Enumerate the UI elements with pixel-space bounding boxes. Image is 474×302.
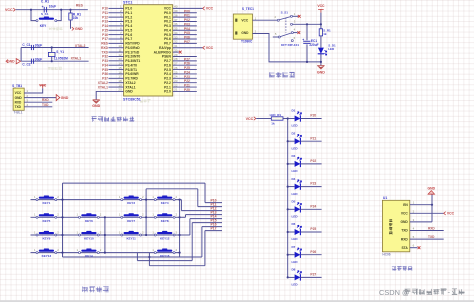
node junction EC1 bottom: [306, 61, 308, 63]
wire LED D6 to net: [300, 231, 321, 233]
pushbutton KEY9: [39, 232, 54, 234]
svg-text:D3: D3: [292, 154, 296, 158]
svg-text:TXD: TXD: [428, 235, 435, 239]
resistor LED_R1 1k: [271, 117, 283, 120]
node junction reset-cap right: [60, 9, 62, 11]
svg-text:5: 5: [275, 32, 277, 36]
svg-text:6: 6: [294, 36, 296, 40]
node junction EC1 top: [306, 23, 308, 25]
svg-text:10k: 10k: [73, 16, 79, 20]
svg-text:2: 2: [255, 29, 257, 33]
svg-text:KEY3: KEY3: [127, 201, 135, 205]
svg-text:2: 2: [57, 230, 59, 234]
wire to VCC port: [173, 7, 203, 9]
label matrix keyboard: [82, 286, 109, 292]
op IC STC1 STC89C51 body: [124, 5, 173, 96]
node junction LED bus row 8: [287, 276, 289, 278]
node junction EN/GND: [431, 204, 433, 206]
node junction LED bus row 1: [287, 117, 289, 119]
svg-text:2: 2: [100, 248, 102, 252]
wire S_TB1 GND: [24, 97, 56, 99]
wire keyboard stack row 1: [205, 202, 222, 204]
wire ALE stub: [173, 51, 179, 53]
svg-text:LED: LED: [328, 47, 335, 51]
svg-text:+: +: [42, 5, 44, 9]
svg-text:C_C1: C_C1: [22, 43, 30, 47]
svg-text:S_TB1: S_TB1: [12, 84, 22, 88]
node junction LED bus row 3: [287, 163, 289, 165]
node junction RES/resistor: [69, 9, 71, 11]
svg-text:GND: GND: [400, 220, 408, 224]
svg-text:P22: P22: [310, 159, 316, 163]
svg-text:KE14: KE14: [85, 254, 93, 258]
wire resistor to LED S_D1: [320, 36, 322, 48]
svg-text:1: 1: [119, 195, 121, 199]
wire LED D3 to net: [300, 163, 321, 165]
svg-text:STC1: STC1: [123, 0, 132, 4]
svg-text:1k: 1k: [323, 32, 327, 36]
node junction bottom bus: [320, 61, 322, 63]
wire switch pin5 stub: [273, 36, 278, 38]
wire pin 33: [173, 38, 197, 40]
svg-text:KEY: KEY: [40, 24, 47, 28]
svg-text:XTAL2: XTAL2: [75, 44, 86, 48]
pushbutton KEY16: [157, 250, 172, 252]
svg-text:S_S1: S_S1: [281, 10, 289, 14]
svg-text:KEY8: KEY8: [161, 219, 169, 223]
svg-text:KEY13: KEY13: [42, 254, 52, 258]
svg-text:LED: LED: [292, 146, 299, 150]
wire switch pin4 stub: [293, 32, 297, 34]
svg-text:GND: GND: [61, 96, 69, 100]
svg-text:KEY6: KEY6: [85, 219, 93, 223]
wire VCC to LED_R1: [256, 118, 271, 120]
wire S_TB1 VCC: [24, 88, 43, 93]
wire pin 25: [173, 73, 197, 75]
pushbutton KEY8: [157, 214, 172, 216]
svg-text:1: 1: [77, 248, 79, 252]
wire pin 34: [173, 34, 197, 36]
power port GND (reset): [72, 27, 74, 30]
wire keyboard bottom route 1: [63, 256, 202, 258]
switch S_S1 link (dashed): [285, 18, 287, 33]
wire keyboard column 1 vertical: [62, 183, 64, 257]
pushbutton KEY6: [81, 214, 96, 216]
svg-text:2: 2: [142, 230, 144, 234]
label power circuit: [269, 72, 294, 78]
wire keyboard row 4: [31, 252, 180, 254]
node junction LED bus row 6: [287, 231, 289, 233]
svg-text:P27: P27: [310, 273, 316, 277]
node junction LED bus row 5: [287, 208, 289, 210]
wire pin 21: [173, 90, 197, 92]
svg-text:VCC: VCC: [447, 212, 455, 216]
label bluetooth module: [392, 266, 412, 271]
wire keyboard top route 1 (col1): [63, 182, 206, 184]
wire S_TEC1 pin1 to switch: [253, 19, 278, 21]
svg-text:1: 1: [77, 230, 79, 234]
svg-text:HC06: HC06: [382, 253, 390, 257]
switch S_S1 pin1 contact: [291, 15, 293, 17]
svg-text:VCC: VCC: [206, 46, 214, 50]
svg-text:P26: P26: [310, 250, 316, 254]
switch S_S1 pole1 common contact: [277, 19, 279, 21]
svg-text:VCC: VCC: [246, 117, 254, 121]
wire to VCC port: [173, 47, 203, 49]
pushbutton KEY13: [39, 250, 54, 252]
wire pin 37: [173, 21, 197, 23]
power port GND (S_TB1): [56, 95, 60, 101]
wire crystal left bus: [20, 48, 22, 62]
svg-text:1: 1: [152, 213, 154, 217]
svg-text:VCC: VCC: [401, 212, 409, 216]
svg-text:10uF: 10uF: [49, 4, 56, 8]
svg-text:2: 2: [176, 195, 178, 199]
svg-text:3: 3: [294, 20, 296, 24]
svg-text:VCC: VCC: [241, 18, 248, 22]
svg-text:LED: LED: [292, 215, 299, 219]
svg-text:1: 1: [34, 213, 36, 217]
wire pin 24: [173, 77, 197, 79]
wire keyboard stack row 6: [192, 222, 222, 224]
svg-text:1: 1: [152, 195, 154, 199]
svg-text:LED: LED: [292, 260, 299, 264]
wire switch pin1 stub: [293, 15, 299, 17]
resistor S_R1 1k: [319, 29, 322, 36]
wire keyboard row 1: [31, 199, 180, 201]
wire pin 28: [173, 60, 197, 62]
svg-text:P07: P07: [184, 40, 190, 44]
svg-text:C_R1: C_R1: [41, 0, 49, 4]
ground symbol (power circuit): [317, 66, 324, 69]
connector S_TEC1 body: [233, 14, 252, 39]
wire keyboard route row1: [180, 199, 182, 201]
svg-text:RXD: RXD: [401, 237, 409, 241]
pushbutton KEY5: [39, 214, 54, 216]
wire keyboard column 3 vertical: [145, 189, 147, 235]
node junction crystal top: [51, 46, 53, 48]
node junction LED bus row 4: [287, 186, 289, 188]
svg-text:2: 2: [413, 209, 415, 213]
pushbutton KEY12: [157, 232, 172, 234]
svg-text:KEY4: KEY4: [161, 201, 169, 205]
svg-text:TXD: TXD: [401, 229, 408, 233]
switch S_S1 pole2 blade: [280, 33, 291, 37]
wire reset button left: [31, 10, 37, 21]
pushbutton KEY1: [39, 197, 54, 199]
svg-text:XTAL1: XTAL1: [71, 57, 82, 61]
svg-text:P21: P21: [310, 136, 316, 140]
svg-text:30pF: 30pF: [35, 44, 42, 48]
svg-text:2: 2: [142, 195, 144, 199]
power port VCC (STC1): [203, 7, 205, 10]
svg-text:GND: GND: [428, 186, 436, 190]
svg-text:GND: GND: [241, 31, 249, 35]
svg-text:3: 3: [413, 218, 415, 222]
wire LED to GND: [320, 54, 322, 66]
svg-text:D7: D7: [292, 245, 296, 249]
svg-text:U1: U1: [383, 196, 387, 200]
wire pin 27: [173, 64, 197, 66]
node junction LED bus row 2: [287, 140, 289, 142]
wire U1 TXD: [410, 230, 444, 232]
node junction crystal bottom: [51, 60, 53, 62]
pushbutton KEY4: [157, 197, 172, 199]
svg-text:S_K1: S_K1: [41, 12, 49, 16]
pushbutton KEY7: [124, 214, 139, 216]
wire S_TB1 TXD: [24, 106, 52, 108]
svg-text:P25: P25: [310, 227, 316, 231]
wire LED D2 to net: [300, 140, 321, 142]
svg-text:RXD: RXD: [42, 98, 49, 102]
svg-text:1: 1: [294, 12, 296, 16]
svg-text:2: 2: [57, 195, 59, 199]
wire pin 39: [173, 12, 197, 14]
wire pin 26: [173, 69, 197, 71]
wire U1 GND: [410, 221, 432, 223]
wire keyboard route row2: [180, 216, 186, 218]
wire LED D8 to net: [300, 276, 321, 278]
svg-text:RXD: RXD: [428, 227, 435, 231]
wire LED anode bus: [287, 119, 289, 278]
svg-text:P20: P20: [184, 88, 190, 92]
svg-text:30pF: 30pF: [35, 57, 42, 61]
wire pin 23: [173, 82, 197, 84]
svg-text:P23: P23: [310, 182, 316, 186]
svg-text:T-BL1: T-BL1: [14, 111, 23, 115]
wire pin 38: [173, 16, 197, 18]
svg-text:2: 2: [57, 248, 59, 252]
svg-text:2: 2: [274, 15, 276, 19]
ground symbol (STC1): [93, 100, 100, 103]
node junction VCC bus: [320, 23, 322, 25]
wire R_R1 to GND: [70, 20, 72, 29]
svg-text:4: 4: [413, 227, 415, 231]
svg-text:2: 2: [100, 213, 102, 217]
wire LED D1 to net: [300, 118, 321, 120]
wire keyboard bottom route 2 (row4 drop A): [136, 253, 138, 261]
svg-text:1: 1: [34, 195, 36, 199]
switch S_S1 pin3 contact: [291, 23, 293, 25]
wire EC1 bottom: [306, 44, 308, 62]
wire keyboard stack row 4: [186, 214, 223, 216]
switch S_S1 pin4 contact: [291, 32, 293, 34]
no-connect X (ALE): [179, 51, 182, 54]
wire keyboard stack row 7: [202, 226, 222, 228]
switch S_S1 pin6 contact: [291, 40, 293, 42]
wire pin 35: [173, 29, 197, 31]
pushbutton KEY11: [124, 232, 139, 234]
wire keyboard stack row 8: [205, 230, 222, 232]
node junction reset-cap left: [30, 9, 32, 11]
power port VCC (U1): [444, 212, 446, 215]
svg-text:1: 1: [152, 248, 154, 252]
resistor R_R1 10k: [69, 13, 72, 20]
wire U1 VCC: [410, 212, 444, 214]
svg-text:VCC: VCC: [39, 84, 47, 88]
svg-text:LED: LED: [292, 237, 299, 241]
svg-text:T1090C: T1090C: [241, 40, 253, 44]
svg-text:-: -: [448, 287, 451, 296]
svg-text:2: 2: [57, 213, 59, 217]
wire pin 36: [173, 25, 197, 27]
wire U1 RXD: [410, 238, 444, 240]
svg-text:EN: EN: [403, 203, 408, 207]
svg-text:XTAL1: XTAL1: [98, 85, 108, 89]
diode S_D1 LED (power): [318, 48, 324, 54]
svg-text:D5: D5: [292, 200, 296, 204]
wire pin 32: [173, 42, 197, 44]
svg-text:KEY9: KEY9: [42, 237, 50, 241]
wire keyboard stack row 5: [190, 218, 222, 220]
svg-text:GND: GND: [7, 59, 15, 63]
svg-text:2: 2: [100, 230, 102, 234]
svg-text:GND: GND: [125, 90, 133, 94]
connector S_TB1 body: [13, 88, 24, 110]
wire reset button right: [56, 10, 61, 21]
svg-text:P17: P17: [211, 227, 217, 231]
module U1 body: [382, 200, 409, 252]
wire keyboard column 2 vertical: [104, 217, 106, 252]
wire RES stub: [71, 9, 88, 11]
svg-text:KFT DIP-4X1: KFT DIP-4X1: [281, 43, 299, 47]
svg-text:GND: GND: [75, 27, 83, 31]
wire U1 EN: [410, 204, 432, 206]
wire keyboard top route 2 (col3): [146, 188, 198, 190]
no-connect X (switch pin1): [298, 15, 301, 18]
svg-text:GND: GND: [317, 71, 325, 75]
wire XTAL1 (bottom): [21, 60, 89, 62]
svg-text:D2: D2: [292, 131, 296, 135]
svg-text:11.0592M: 11.0592M: [54, 57, 68, 61]
wire S_TB1 RXD: [24, 101, 52, 103]
svg-text:D1: D1: [292, 108, 296, 112]
svg-text:KEY16: KEY16: [160, 254, 170, 258]
wire LED D4 to net: [300, 186, 321, 188]
wire U1 GND riser: [431, 194, 433, 222]
wire LED_R1 to bus: [283, 118, 288, 120]
svg-text:GND: GND: [15, 96, 23, 100]
pushbutton KEY10: [81, 232, 96, 234]
svg-text:KEY5: KEY5: [42, 219, 50, 223]
svg-text:STA: STA: [401, 246, 408, 250]
svg-text:LED: LED: [292, 283, 299, 287]
svg-text:TXD: TXD: [15, 105, 22, 109]
wire to resistor R_R1: [70, 10, 72, 13]
svg-text:LED: LED: [292, 169, 299, 173]
switch S_S1 pole1 blade: [279, 17, 290, 20]
svg-text:1: 1: [34, 230, 36, 234]
svg-text:2: 2: [176, 230, 178, 234]
svg-text:STC89C51: STC89C51: [123, 98, 141, 102]
wire PSEN stub: [173, 55, 197, 57]
svg-text:D4: D4: [292, 177, 296, 181]
wire keyboard row 3: [31, 234, 180, 236]
wire GND pin of STC1: [96, 91, 123, 99]
svg-text:S_TEC1: S_TEC1: [242, 7, 254, 11]
svg-text:GND: GND: [92, 104, 100, 108]
svg-text:LED: LED: [292, 192, 299, 196]
svg-text:VCC: VCC: [15, 91, 22, 95]
svg-text:KEY7: KEY7: [127, 219, 135, 223]
svg-text:1k: 1k: [271, 122, 275, 126]
wire keyboard row 2: [31, 216, 180, 218]
faint watermark text 3: [140, 99, 151, 102]
svg-text:D6: D6: [292, 222, 296, 226]
wire S_TEC1 pin2 GND path: [253, 34, 321, 62]
wire LED D7 to net: [300, 254, 321, 256]
svg-text:2: 2: [142, 213, 144, 217]
module U1 vertical part name: [389, 219, 392, 222]
svg-text:P24: P24: [310, 204, 316, 208]
wire U1 STA stub: [410, 247, 418, 249]
wire VCC bus top: [320, 13, 322, 29]
power port VCC (S_TB1): [40, 85, 46, 88]
node junction bottom route: [148, 256, 150, 258]
node junction LED bus row 7: [287, 254, 289, 256]
wire pin 22: [173, 86, 197, 88]
svg-text:S_Y1: S_Y1: [56, 50, 64, 54]
svg-text:1: 1: [152, 230, 154, 234]
svg-text:1: 1: [119, 213, 121, 217]
crystal S_Y1 11.0592M: [51, 48, 53, 53]
svg-text:KEY11: KEY11: [127, 237, 137, 241]
wire keyboard route row3: [180, 234, 190, 236]
svg-text:TXD: TXD: [42, 103, 49, 107]
svg-text:LED_R1: LED_R1: [270, 113, 282, 117]
wire VCC to reset network: [16, 9, 71, 11]
wire keyboard stack row 2: [198, 206, 222, 208]
svg-text:KEY12: KEY12: [160, 237, 170, 241]
svg-text:VCC: VCC: [317, 4, 325, 8]
power port VCC (STC1): [203, 46, 205, 49]
svg-text:RES: RES: [76, 4, 84, 8]
wire switch pin3 to bus: [293, 23, 321, 25]
svg-text:KEY10: KEY10: [84, 237, 94, 241]
bottom edge strip: [0, 300, 474, 302]
svg-text:5: 5: [413, 235, 415, 239]
svg-text:1: 1: [413, 201, 415, 205]
svg-text:VCC: VCC: [5, 8, 13, 12]
pushbutton S_K1 KEY: [39, 18, 54, 20]
svg-text:2: 2: [176, 213, 178, 217]
pushbutton KEY3: [124, 197, 139, 199]
wire LED D5 to net: [300, 208, 321, 210]
no-connect X (U1 STA): [418, 246, 421, 249]
wire XTAL2 (top): [21, 47, 89, 49]
faint watermark text 2: [48, 67, 62, 70]
svg-text:P2.0: P2.0: [164, 90, 171, 94]
label MCU minimal system: [91, 116, 134, 121]
svg-text:1: 1: [119, 230, 121, 234]
wire keyboard column 4 vertical: [179, 200, 181, 257]
svg-text:VCC: VCC: [206, 7, 214, 11]
svg-text:220uF: 220uF: [309, 43, 318, 47]
switch S_S1 pole2 common contact: [278, 36, 280, 38]
wire EC1 top: [306, 24, 308, 40]
svg-text:1: 1: [34, 248, 36, 252]
wire keyboard stack row 3: [181, 210, 222, 212]
svg-text:2: 2: [176, 248, 178, 252]
svg-text:1: 1: [77, 213, 79, 217]
pushbutton KE14: [81, 250, 96, 252]
svg-text:4: 4: [294, 27, 296, 31]
svg-text:RXD: RXD: [15, 100, 22, 104]
svg-text:C_C2: C_C2: [22, 62, 30, 66]
svg-text:D8: D8: [292, 268, 296, 272]
power port GND (crystal): [6, 60, 8, 63]
svg-text:6: 6: [413, 244, 415, 248]
